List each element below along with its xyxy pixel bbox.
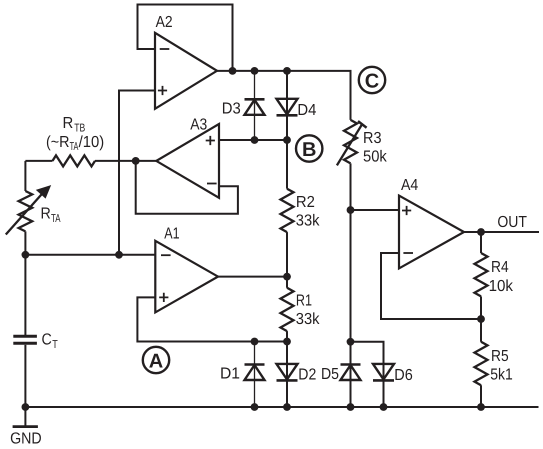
node B [296,135,322,161]
junction rail-D5 [347,403,355,411]
svg-text:R2: R2 [296,194,315,211]
svg-text:50k: 50k [363,148,388,165]
wire A2 output [217,71,351,120]
junction rail-D2 [283,403,291,411]
svg-text:33k: 33k [296,212,321,229]
wire A1 output [218,276,287,278]
op-amp A2 [155,14,217,109]
junction rail-D1 [251,403,259,411]
wire A3 feedback loop [136,162,238,214]
svg-text:5k1: 5k1 [490,367,513,384]
junction A1 output-R1R2 [283,273,291,281]
svg-text:R3: R3 [363,130,382,147]
node A [143,347,169,373]
junction A1 feedback-R1 [283,338,291,346]
junction rail-CT [22,403,30,411]
wire A3 output [136,160,157,162]
capacitor CT [13,255,57,407]
junction A1 feedback-D1 [251,338,259,346]
svg-text:C: C [42,332,52,349]
diode D4 [277,71,317,140]
node C [359,67,385,93]
op-amp A1 [155,225,218,312]
svg-text:A4: A4 [401,177,418,194]
svg-text:A2: A2 [156,14,173,31]
wire R3 to D5 [350,210,352,407]
diode D2 [277,342,317,408]
svg-text:TA: TA [70,141,79,153]
svg-text:R5: R5 [491,348,509,365]
svg-text:R1: R1 [296,292,312,309]
wire A4 noninverting input [351,209,400,211]
wire ground rail [25,406,538,408]
junction A4 output-R4 [477,228,485,236]
diode D5 [321,365,361,384]
svg-text:D6: D6 [394,367,413,384]
diode D6 [351,342,413,407]
svg-text:A3: A3 [190,116,207,133]
resistor R4 [475,232,514,319]
wire A4 output OUT [464,214,539,232]
junction D4 top [283,67,291,75]
resistor R2 [281,140,321,277]
svg-text:R: R [63,115,74,132]
svg-text:D2: D2 [298,366,316,383]
junction A4 noninverting input [347,206,355,214]
junction D3 top [251,67,259,75]
svg-text:GND: GND [10,430,42,447]
svg-text:OUT: OUT [497,214,527,231]
svg-text:10k: 10k [489,278,514,295]
wire A2 inverting input [137,48,156,50]
svg-text:D5: D5 [321,366,339,383]
ground GND [10,407,42,447]
junction RTA-CT [22,251,30,259]
svg-text:A: A [149,350,163,372]
junction rail-D6 [380,403,388,411]
svg-text:A1: A1 [164,225,179,242]
resistor R5 [475,319,513,407]
junction D5-D6 branch [347,338,355,346]
diode D1 [220,342,265,408]
resistor R1 [281,277,321,342]
junction D3 bottom [251,136,259,144]
wire A2 feedback loop [138,5,233,71]
op-amp A4 [399,177,464,269]
svg-text:TA: TA [51,213,61,225]
wire node B (A3 noninverting input) [219,139,287,141]
junction A2+ branch [115,251,123,259]
diode D3 [222,71,265,140]
junction R4-R5-feedback [477,315,485,323]
wire A4 feedback [381,253,481,319]
svg-text:TB: TB [74,123,85,135]
wire A2 noninverting input to A1 [119,91,155,255]
svg-text:R4: R4 [491,259,509,276]
op-amp A3 [156,116,219,197]
svg-text:T: T [52,339,58,351]
wire RTA/CT node to A1 inverting input [25,254,155,256]
junction D4 bottom [283,136,291,144]
resistor R3 [337,120,388,210]
svg-text:C: C [365,70,379,92]
wire A1 noninverting input/feedback [137,297,287,341]
junction rail-R5 [477,403,485,411]
svg-text:R: R [41,205,51,222]
junction A3 output [132,157,140,165]
svg-text:D3: D3 [222,101,241,118]
svg-text:D1: D1 [220,365,240,382]
svg-text:(~R: (~R [46,134,70,151]
resistor RTA [6,161,61,255]
svg-text:D4: D4 [297,102,316,119]
svg-text:B: B [302,139,316,161]
svg-text:/10): /10) [79,134,105,151]
svg-text:33k: 33k [296,311,321,328]
resistor RTB [25,115,136,167]
junction A2 output/feedback [229,67,237,75]
